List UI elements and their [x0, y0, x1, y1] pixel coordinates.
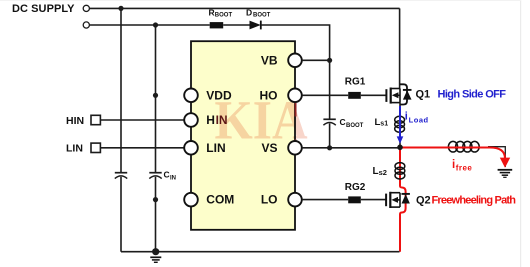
svg-text:IN: IN	[170, 176, 176, 182]
svg-text:i: i	[405, 111, 408, 123]
IC U1 body	[191, 41, 295, 230]
wire VB pin to Cboot top	[302, 59, 330, 61]
connector LIN (square)	[91, 143, 100, 152]
junction on rail2 at x=155.5	[153, 22, 158, 27]
svg-text:D: D	[246, 8, 252, 18]
svg-text:C: C	[340, 117, 346, 127]
faint page border right	[520, 0, 521, 267]
connector HIN (square)	[91, 115, 100, 124]
transistor Q2	[386, 192, 410, 208]
Q2 drain stub	[390, 192, 400, 194]
svg-text:High Side OFF: High Side OFF	[438, 89, 507, 101]
Q2 body diode	[402, 193, 410, 195]
transistor Q1	[386, 84, 411, 104]
ground (right)	[498, 170, 513, 178]
svg-text:Q1: Q1	[416, 89, 431, 101]
capacitor C-A (unlabeled)	[115, 172, 127, 174]
black corner under red arrow (right)	[488, 147, 505, 167]
svg-text:BOOT: BOOT	[346, 123, 364, 129]
wire HIN to pin	[100, 119, 184, 121]
wire: line B lower to ground rail	[155, 177, 157, 252]
Q1 body stub + arrow	[396, 94, 400, 96]
Q2 vertical connector	[399, 193, 401, 207]
faint page border top	[0, 0, 521, 1]
svg-text:COM: COM	[206, 193, 234, 207]
svg-text:Freewheeling Path: Freewheeling Path	[432, 195, 517, 207]
Q1 source stub	[391, 102, 400, 104]
Q1 body-diode bulge	[400, 84, 407, 104]
Q1 source/drain vertical	[399, 89, 401, 103]
Q1 channel bar	[390, 88, 392, 104]
svg-text:C: C	[164, 170, 170, 180]
pin circle VS	[288, 141, 302, 155]
Q2 gate bar	[385, 194, 387, 207]
wire Rboot to Dboot	[223, 24, 249, 26]
svg-text:HIN: HIN	[66, 115, 84, 127]
svg-text:free: free	[456, 164, 473, 173]
wire Cboot branch lower	[329, 123, 331, 147]
diode DBOOT symbol	[250, 21, 261, 30]
freewheeling red wire: node to right corner with arrow	[400, 148, 505, 159]
wire LO to RG2	[302, 199, 348, 201]
wire: line A lower to ground rail	[120, 177, 122, 252]
inductor Ls2 coil	[395, 163, 405, 170]
svg-text:BOOT: BOOT	[253, 12, 271, 18]
junction COM on line B	[153, 197, 158, 202]
svg-text:Q2: Q2	[416, 195, 431, 207]
svg-text:R: R	[209, 8, 215, 18]
Q2 source stub	[390, 206, 400, 208]
watermark artifact on IC border	[295, 103, 297, 117]
terminal T2 (open circle)	[83, 22, 89, 28]
wire RG1 to Q1 gate	[361, 94, 387, 96]
pin circle COM	[184, 193, 198, 207]
pin circle HO	[288, 89, 302, 103]
pin circle LO	[288, 193, 302, 207]
resistor RG2 body	[348, 196, 361, 203]
wire HO to RG1	[302, 94, 348, 96]
Q2 channel bar	[389, 192, 391, 208]
svg-text:s2: s2	[379, 168, 387, 177]
Q1 body diode	[403, 89, 412, 91]
capacitor CBOOT	[323, 118, 335, 120]
terminal T1 (open circle)	[83, 5, 89, 11]
wire Q1 source to node	[399, 103, 401, 148]
wire Cboot branch upper	[329, 60, 331, 119]
junction VB node	[327, 58, 332, 63]
wire: supply rail 1 horizontal	[90, 7, 400, 9]
svg-text:LIN: LIN	[66, 143, 83, 155]
load inductor coil (horizontal)	[448, 141, 479, 152]
node VS junction	[397, 145, 403, 151]
wire LIN to pin	[100, 147, 184, 149]
svg-text:s1: s1	[380, 120, 388, 127]
wire VS pin to node	[302, 147, 400, 149]
junction Cboot/VS	[327, 145, 332, 150]
resistor RG1 body	[348, 92, 361, 99]
svg-text:Load: Load	[409, 115, 429, 124]
pin circle LIN	[184, 141, 198, 155]
wire: supply rail 2 to Rboot	[90, 24, 210, 26]
resistor RBOOT body	[210, 22, 224, 28]
pin circle VDD	[184, 89, 198, 103]
pin circle HIN	[184, 113, 198, 127]
Q1 gate bar	[385, 89, 387, 102]
freewheeling red wire: node down through Q2 body diode to rail	[400, 148, 406, 252]
svg-text:RG2: RG2	[345, 182, 366, 193]
junction ground node	[152, 248, 159, 255]
junction on rail1 at x=121	[118, 6, 123, 11]
svg-text:BOOT: BOOT	[215, 12, 233, 18]
wire: vertical line A from rail1	[120, 8, 122, 172]
svg-text:DC SUPPLY: DC SUPPLY	[12, 3, 75, 15]
svg-text:i: i	[452, 159, 455, 171]
inductor Ls1 coil	[395, 116, 405, 123]
svg-text:RG1: RG1	[345, 77, 366, 88]
pin circle VB	[288, 54, 302, 68]
wire: Q1 drain drop from rail 1	[399, 8, 401, 88]
svg-text:LO: LO	[261, 193, 278, 207]
junction VDD on line B	[153, 93, 158, 98]
wire: vertical line B from rail2	[155, 25, 157, 172]
wire Dboot to VB drop	[261, 25, 330, 60]
wire RG2 to Q2 gate	[361, 199, 386, 201]
ground (left)	[150, 257, 161, 262]
Q1 drain stub	[391, 88, 400, 90]
svg-text:VB: VB	[261, 53, 278, 67]
current arrow iLoad (blue)	[399, 106, 401, 138]
capacitor CIN	[149, 172, 161, 174]
Q2 body stub + arrow	[396, 199, 401, 201]
ground rail (bottom)	[121, 251, 400, 253]
